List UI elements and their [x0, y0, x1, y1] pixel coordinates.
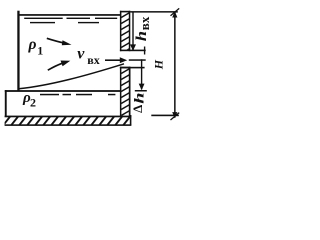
svg-text:v: v	[77, 46, 85, 63]
svg-text:ρ: ρ	[28, 36, 37, 53]
svg-text:вх: вх	[137, 16, 152, 30]
curved arrow lower	[48, 61, 71, 71]
ground hatching	[3, 116, 131, 126]
extension end tick	[144, 47, 145, 55]
surface shading dashes row 1	[24, 18, 117, 19]
ground (bottom) top line	[5, 116, 132, 118]
bottom extension line (to H dim)	[151, 115, 179, 117]
streamline curve	[19, 64, 124, 89]
left tank wall	[17, 11, 19, 91]
lower-left wall	[5, 90, 7, 117]
svg-text:вх: вх	[87, 53, 99, 67]
ground right edge	[130, 115, 132, 126]
svg-text:H: H	[152, 59, 166, 70]
interface level mark right of wall	[135, 90, 147, 92]
opening bottom edge + extension line	[120, 67, 145, 69]
svg-text:Δ: Δ	[130, 105, 145, 113]
inlet axis extension line	[129, 59, 146, 61]
ground bottom line	[5, 124, 132, 126]
H dimension line	[171, 8, 180, 120]
opening top edge + extension line	[120, 50, 146, 52]
h_vx dimension line	[130, 12, 136, 51]
svg-text:h: h	[133, 31, 150, 41]
curved arrow upper	[47, 38, 72, 45]
interface line (top of rho2)	[5, 90, 121, 92]
lower right wall (hatched column)	[120, 67, 131, 117]
interface shading dashes	[40, 94, 115, 96]
top extension line (to H dim)	[130, 11, 178, 13]
svg-text:1: 1	[37, 43, 43, 57]
free surface line	[19, 14, 120, 16]
svg-text:2: 2	[30, 96, 36, 110]
svg-text:h: h	[132, 93, 147, 104]
dh dimension line	[139, 59, 145, 90]
upper right wall (hatched column)	[120, 11, 131, 55]
surface shading dashes row 2	[30, 22, 99, 23]
inlet velocity arrow	[105, 57, 146, 63]
